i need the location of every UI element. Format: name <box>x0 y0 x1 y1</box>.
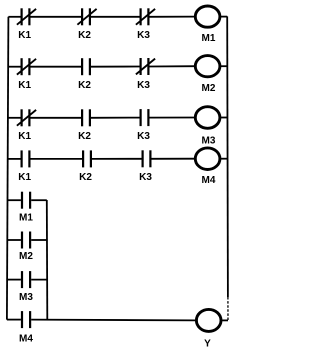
svg-text:M3: M3 <box>19 292 33 303</box>
label Y coil <box>204 339 211 350</box>
right power rail <box>226 16 229 320</box>
svg-text:Y: Y <box>204 339 211 350</box>
label K2 rung1 <box>78 30 91 41</box>
svg-text:K1: K1 <box>18 30 31 41</box>
contact K3 rung2 (NC) <box>136 58 155 75</box>
coil Y <box>196 309 221 331</box>
rung 2 wire: K1 to K2 <box>31 66 82 68</box>
branch 2 wire: contact M2 to bus <box>31 239 47 241</box>
rung 3 wire: coil M3 to right rail <box>220 117 228 119</box>
coil M3 <box>195 107 220 129</box>
rung 3 wire: K1 to K2 <box>31 117 82 119</box>
rung 2 wire: coil M2 to right rail <box>220 65 228 67</box>
svg-text:K3: K3 <box>139 172 152 183</box>
label K2 rung2 <box>78 80 91 91</box>
coil M4 <box>195 148 220 170</box>
branch 1 wire: contact M1 to bus <box>31 199 47 201</box>
svg-text:M3: M3 <box>202 135 216 146</box>
label M4 contact <box>19 334 33 345</box>
rung 4 wire: K1 to K2 <box>31 158 83 160</box>
contact K3 rung4 (NO) <box>143 150 151 167</box>
contact K2 rung3 (NO) <box>82 109 90 126</box>
branch bus vertical wire <box>46 200 49 320</box>
svg-text:M2: M2 <box>19 251 33 262</box>
rung 3 wire: K2 to K3 <box>91 117 140 119</box>
rung 4 wire: K3 to coil M4 <box>152 158 196 160</box>
rung 4 wire: rail to K1 <box>8 158 21 160</box>
contact M4 (NO) <box>22 311 30 328</box>
branch 4 wire: rail to contact M4 <box>7 319 21 321</box>
contact M2 (NO) <box>22 232 30 249</box>
contact K1 rung2 (NC) <box>17 58 36 75</box>
rung 1 wire: coil M1 to right rail <box>220 16 227 18</box>
label M2 coil <box>202 83 216 94</box>
coil M1 <box>195 6 220 27</box>
rung 2 wire: rail to K1 <box>8 66 20 68</box>
svg-text:K3: K3 <box>137 131 150 142</box>
label K1 rung1 <box>18 30 31 41</box>
label K3 rung3 <box>137 131 150 142</box>
coil M2 <box>195 56 220 77</box>
rung 1 wire: K1 to K2 <box>31 16 82 18</box>
svg-text:M1: M1 <box>202 33 216 44</box>
svg-text:K2: K2 <box>78 131 91 142</box>
svg-text:K2: K2 <box>79 172 92 183</box>
rung 4 wire: coil M4 to right rail <box>220 158 228 160</box>
contact K2 rung2 (NO) <box>82 58 90 75</box>
output wire: coil Y to right rail <box>221 319 228 321</box>
contact K2 rung1 (NC) <box>77 8 96 25</box>
label M4 coil <box>202 175 216 186</box>
rung 3 wire: K3 to coil M3 <box>150 117 196 119</box>
rung 1 wire: K3 to coil M1 <box>150 16 196 18</box>
label K1 rung4 <box>18 172 31 183</box>
svg-text:K2: K2 <box>78 80 91 91</box>
svg-text:K3: K3 <box>137 30 150 41</box>
rung 4 wire: K2 to K3 <box>92 158 142 160</box>
svg-text:K1: K1 <box>18 172 31 183</box>
contact K1 rung4 (NO) <box>22 150 30 167</box>
label K3 rung1 <box>137 30 150 41</box>
svg-text:M4: M4 <box>19 334 33 345</box>
contact K1 rung1 (NC) <box>17 8 36 25</box>
rung 1 wire: rail to K1 <box>8 16 20 18</box>
label K3 rung4 <box>139 172 152 183</box>
contact K3 rung1 (NC) <box>136 8 155 25</box>
label K2 rung3 <box>78 131 91 142</box>
rung 3 wire: rail to K1 <box>8 117 21 119</box>
contact M1 (NO) <box>22 192 30 209</box>
svg-text:K1: K1 <box>18 80 31 91</box>
contact M3 (NO) <box>22 271 30 288</box>
branch 1 wire: rail to contact M1 <box>8 199 21 201</box>
svg-text:K2: K2 <box>78 30 91 41</box>
svg-text:K3: K3 <box>137 80 150 91</box>
label M1 coil <box>202 33 216 44</box>
label M3 contact <box>19 292 33 303</box>
left power rail <box>7 17 8 320</box>
output wire: contact M4 to coil Y <box>31 319 196 322</box>
branch 3 wire: contact M3 to bus <box>31 279 47 281</box>
label M2 contact <box>19 251 33 262</box>
contact K2 rung4 (NO) <box>83 150 91 167</box>
label M3 coil <box>202 135 216 146</box>
svg-text:K1: K1 <box>18 131 31 142</box>
label K1 rung3 <box>18 131 31 142</box>
branch 3 wire: rail to contact M3 <box>7 279 21 281</box>
rung 1 wire: K2 to K3 <box>91 16 140 18</box>
rung 2 wire: K3 to coil M2 <box>150 65 196 67</box>
label M1 contact <box>19 213 33 224</box>
label K3 rung2 <box>137 80 150 91</box>
branch 2 wire: rail to contact M2 <box>7 239 21 241</box>
svg-text:M2: M2 <box>202 83 216 94</box>
contact K1 rung3 (NC) <box>17 109 36 126</box>
label K2 rung4 <box>79 172 92 183</box>
label K1 rung2 <box>18 80 31 91</box>
svg-text:M1: M1 <box>19 213 33 224</box>
rung 2 wire: K2 to K3 <box>91 66 140 68</box>
contact K3 rung3 (NO) <box>141 109 149 126</box>
svg-text:M4: M4 <box>202 175 216 186</box>
